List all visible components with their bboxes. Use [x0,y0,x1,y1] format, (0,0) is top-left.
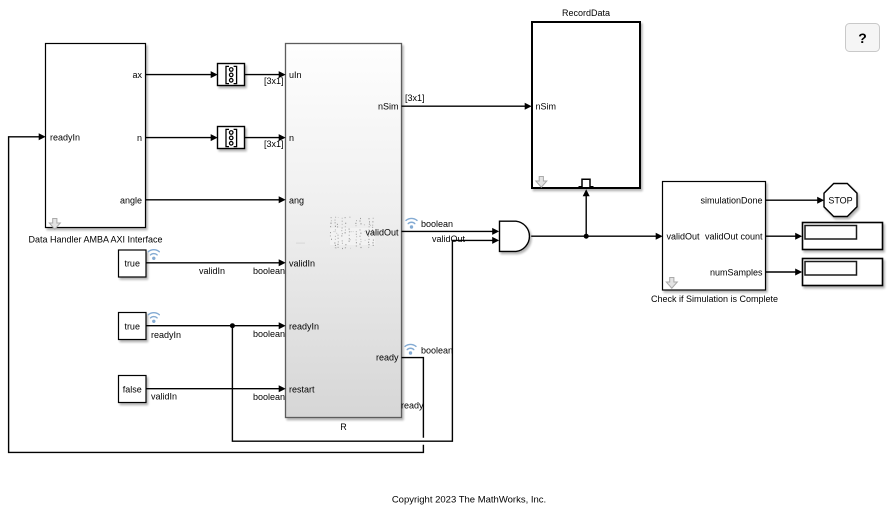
wire nSim: R to RecordData [3x1] [402,105,526,107]
junction J2 on AND output wire [584,234,589,239]
svg-text:?: ? [858,30,867,46]
svg-text:boolean: boolean [253,266,285,276]
svg-text:validIn: validIn [151,392,177,402]
trigger port icon on RecordData [579,179,594,186]
wire angle: Data Handler to R.ang [146,199,280,201]
svg-text:Check if Simulation is Complet: Check if Simulation is Complete [651,294,778,304]
svg-text:simulationDone: simulationDone [700,196,762,206]
wire validOut: R to AND gate input 1 [402,230,493,232]
wire validIn: true1 to R.validIn [146,262,279,264]
wire validOut count: Check to Display1 [766,235,796,237]
logging badge on ready wire [405,344,416,354]
svg-text:nSim: nSim [536,102,557,112]
logging badge on true1 wire [148,250,159,260]
badge: open-subsystem arrow on Check block [666,278,677,289]
svg-text:readyIn: readyIn [289,322,319,332]
svg-text:RecordData: RecordData [562,8,610,18]
svg-text:validIn: validIn [199,266,225,276]
logging badge on validOut wire [406,218,417,228]
svg-text:[3x1]: [3x1] [264,139,284,149]
svg-text:readyIn: readyIn [50,133,80,143]
badge: open-subsystem arrow on Data Handler [49,219,60,230]
svg-text:false: false [123,385,142,395]
svg-text:Data Handler AMBA AXI Interfac: Data Handler AMBA AXI Interface [28,235,162,245]
junction J1 on readyIn wire [230,323,235,328]
svg-text:[3x1]: [3x1] [264,76,284,86]
wire uIn: M1 to R [3x1] [245,74,280,76]
wire numSamples: Check to Display2 [766,271,796,273]
help button [846,24,880,52]
svg-text:validOut: validOut [667,232,701,242]
constant true1 [119,250,147,277]
block Data Handler AMBA AXI Interface [46,44,146,228]
model block R [286,44,402,418]
display Display2 [803,259,883,286]
mux M1 (vector [3x1]) [218,64,245,86]
subsystem RecordData [532,22,640,188]
svg-text:ready: ready [376,353,399,363]
display Display1 [803,223,883,250]
STOP block [824,184,857,217]
svg-text:nSim: nSim [378,102,399,112]
svg-text:n: n [289,133,294,143]
constant false1 [119,376,147,403]
wire n: M2 to R [3x1] [245,137,280,139]
svg-text:ready: ready [401,401,424,411]
svg-text:R: R [340,422,347,432]
watermark stipple inside R [296,217,375,249]
wire restart: false1 to R.restart [146,388,279,390]
AND gate U1 [500,221,530,251]
svg-text:ax: ax [132,70,142,80]
svg-text:validOut: validOut [432,234,466,244]
mux M2 (vector [3x1]) [218,127,245,149]
subsystem Check if Simulation is Complete [663,182,766,291]
svg-text:n: n [137,133,142,143]
svg-text:boolean: boolean [421,346,453,356]
svg-text:validOut count: validOut count [705,232,763,242]
wire AND output to Check.validOut [531,235,656,237]
svg-text:STOP: STOP [828,196,852,206]
svg-text:validIn: validIn [289,259,315,269]
wire simulationDone: Check to STOP [766,199,818,201]
svg-text:true: true [124,322,140,332]
constant true2 [119,313,147,340]
wire n: Data Handler to M2 [146,137,212,139]
svg-text:validOut: validOut [365,228,399,238]
badge: open-subsystem arrow on RecordData [536,177,547,188]
svg-text:boolean: boolean [253,329,285,339]
svg-text:numSamples: numSamples [710,268,763,278]
svg-text:uIn: uIn [289,70,302,80]
wire readyIn: true2 to R.readyIn [146,325,279,327]
svg-text:readyIn: readyIn [151,330,181,340]
wire trigger: junction J2 up to RecordData trigger [585,196,587,237]
svg-text:[3x1]: [3x1] [405,93,425,103]
logging badge on true2 wire [148,313,159,323]
svg-text:boolean: boolean [421,219,453,229]
wire ax: Data Handler to M1 [146,74,212,76]
svg-text:boolean: boolean [253,392,285,402]
svg-text:Copyright 2023 The MathWorks,: Copyright 2023 The MathWorks, Inc. [392,495,546,506]
wire branch: junction J1 down and right up to AND gate input 2 [232,240,492,441]
svg-text:angle: angle [120,196,142,206]
svg-text:ang: ang [289,196,304,206]
wire ready feedback: R.ready right, down, left, up to Data Handler.readyIn [9,137,424,453]
svg-text:restart: restart [289,385,315,395]
svg-text:true: true [124,259,140,269]
